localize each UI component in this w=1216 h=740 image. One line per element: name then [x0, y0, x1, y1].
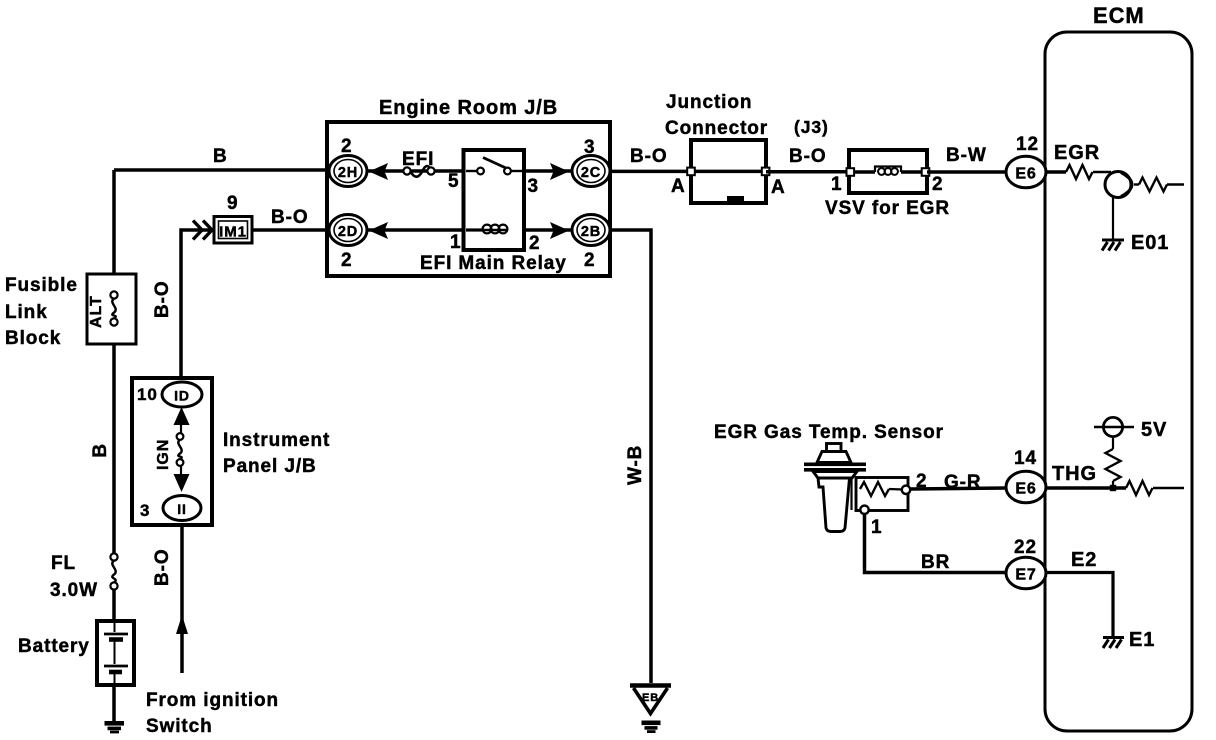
svg-text:2: 2: [341, 136, 352, 157]
svg-text:FL: FL: [51, 553, 76, 574]
resistor EGR: [1066, 165, 1093, 179]
ground bars below EB: [642, 721, 661, 726]
svg-text:Connector: Connector: [665, 118, 768, 139]
svg-text:THG: THG: [1052, 463, 1097, 485]
svg-text:2: 2: [932, 174, 943, 195]
wire FL fuse to battery: [112, 589, 116, 621]
connector 2D: [329, 215, 367, 246]
svg-text:1: 1: [450, 232, 461, 253]
svg-text:9: 9: [227, 193, 238, 214]
connector II oval: [163, 496, 201, 521]
terminal 2 node: [902, 486, 910, 494]
svg-text:5: 5: [448, 171, 459, 192]
svg-text:Junction: Junction: [666, 92, 752, 113]
svg-text:3: 3: [528, 176, 539, 197]
instrument panel JB box: [132, 378, 212, 525]
connector E6 pin12: [1006, 156, 1046, 188]
svg-text:EFI: EFI: [402, 149, 434, 170]
wire B vertical left upper: [112, 170, 116, 274]
J3 inner bar: [727, 196, 744, 202]
arrow up on ignition wire: [176, 615, 188, 634]
svg-text:E1: E1: [1129, 629, 1155, 651]
svg-text:1: 1: [831, 174, 842, 195]
svg-text:14: 14: [1014, 448, 1037, 469]
arrow down into II: [174, 474, 190, 492]
svg-text:From ignition: From ignition: [146, 690, 279, 711]
svg-text:3: 3: [140, 501, 150, 520]
wire resistor2 end: [1167, 183, 1184, 185]
svg-text:E01: E01: [1131, 232, 1169, 254]
wire battery to ground: [112, 685, 116, 721]
svg-text:Fusible: Fusible: [5, 275, 78, 296]
svg-text:2H: 2H: [338, 165, 358, 181]
svg-text:2C: 2C: [581, 165, 601, 181]
svg-text:Switch: Switch: [146, 716, 213, 737]
wire below instrument panel JB: [180, 525, 184, 673]
wire resistor to junction: [1112, 481, 1114, 488]
power 5V: [1103, 417, 1122, 436]
arrow left into 2H: [369, 163, 388, 180]
svg-text:G-R: G-R: [944, 472, 982, 493]
transistor: [1105, 172, 1131, 198]
svg-text:W-B: W-B: [625, 445, 646, 485]
svg-text:E6: E6: [1015, 481, 1036, 498]
ground triangle EB: [630, 683, 671, 687]
svg-text:VSV for EGR: VSV for EGR: [825, 198, 950, 219]
J3 terminal right: [762, 168, 770, 176]
fuse EFI: [411, 166, 431, 177]
svg-text:B: B: [213, 146, 228, 167]
sensor right edge double line: [850, 478, 852, 510]
connector 2H: [329, 156, 367, 187]
sensor flange: [804, 463, 866, 467]
svg-text:2: 2: [584, 250, 595, 271]
svg-text:10: 10: [137, 385, 158, 404]
svg-text:B-O: B-O: [152, 548, 173, 586]
wire VSV to E6: [927, 170, 1007, 174]
wire sensor pin1 to E7: [865, 514, 1008, 573]
wire THG: [1046, 486, 1126, 490]
VSV coil: [875, 167, 901, 173]
fusible link ALT fuse element: [112, 299, 115, 319]
fusible link block ALT box: [87, 274, 136, 344]
chevrons into IM1: [193, 221, 212, 240]
svg-text:22: 22: [1014, 537, 1037, 558]
wire 2B to WB drop: [610, 230, 651, 683]
wire 2H to relay: [366, 169, 463, 173]
svg-text:E6: E6: [1015, 166, 1036, 183]
fuse FL 3.0W: [112, 561, 115, 583]
svg-text:EGR: EGR: [1054, 142, 1100, 164]
wire E6 to resistor: [1046, 170, 1066, 174]
terminal 1 node: [860, 506, 868, 514]
connector IM1: [214, 217, 252, 244]
svg-text:B-O: B-O: [152, 280, 173, 318]
resistor THG pullup vertical: [1106, 449, 1121, 481]
wire transistor to E01 ground: [1112, 198, 1114, 241]
VSV terminal left: [847, 168, 855, 176]
svg-text:2: 2: [341, 250, 352, 271]
arrow right into 2C: [550, 163, 569, 180]
battery: [97, 621, 134, 685]
ground E01: [1102, 239, 1124, 242]
VSV for EGR box: [849, 150, 927, 193]
ECM box: [1045, 32, 1192, 731]
wire relay to 2C: [524, 169, 573, 173]
connector E7 pin22: [1006, 557, 1046, 589]
wire 2C to J3: [610, 170, 691, 174]
connector ID oval: [162, 382, 202, 407]
svg-text:12: 12: [1016, 134, 1039, 155]
svg-text:B-O: B-O: [271, 207, 309, 228]
wire 2D to relay: [366, 228, 482, 232]
arrow up into ID: [174, 407, 190, 425]
resistor THG output: [1126, 481, 1153, 495]
svg-text:ECM: ECM: [1093, 3, 1145, 28]
svg-text:ID: ID: [174, 388, 190, 404]
svg-text:Panel J/B: Panel J/B: [223, 456, 317, 477]
svg-text:EB: EB: [642, 692, 659, 704]
connector 2C: [572, 156, 610, 187]
J3 terminal left: [687, 168, 695, 176]
wire ALT to FL fuse: [112, 344, 116, 554]
svg-text:2: 2: [529, 233, 540, 254]
SECTION: left battery branch: [114, 170, 329, 721]
fuse IGN: [180, 425, 182, 433]
svg-text:EGR Gas Temp. Sensor: EGR Gas Temp. Sensor: [714, 422, 944, 443]
svg-text:Battery: Battery: [18, 636, 90, 657]
svg-text:B: B: [90, 443, 111, 458]
svg-text:B-O: B-O: [630, 146, 668, 167]
svg-text:II: II: [177, 501, 187, 517]
wire 5V to resistor: [1112, 437, 1114, 450]
svg-text:2B: 2B: [581, 224, 601, 240]
svg-text:Block: Block: [5, 328, 61, 349]
wire B horizontal top: [114, 168, 329, 172]
svg-text:E7: E7: [1015, 567, 1036, 584]
SECTION: B-O ignition branch: [181, 230, 330, 673]
engine room JB box: [327, 122, 610, 276]
wire through J3: [691, 170, 766, 174]
junction connector J3 box: [691, 140, 766, 203]
relay box EFI main relay: [464, 150, 525, 250]
svg-text:BR: BR: [921, 552, 950, 573]
arrow left into 2D: [369, 222, 388, 239]
svg-text:5V: 5V: [1141, 419, 1167, 441]
node THG junction: [1110, 485, 1116, 491]
EGR gas temp sensor body: [813, 444, 908, 532]
wire resistor to transistor: [1093, 171, 1111, 173]
svg-text:Link: Link: [5, 302, 48, 323]
relay coil: [466, 228, 482, 231]
thermistor element: [860, 482, 889, 496]
svg-text:A: A: [671, 176, 686, 197]
ground E1: [1103, 636, 1124, 639]
ground battery: [105, 721, 125, 726]
connector 2B: [572, 215, 610, 246]
svg-text:A: A: [771, 177, 786, 198]
relay switch: [466, 170, 477, 172]
wire B-O turn to IM1: [181, 230, 214, 378]
wire IM1 to 2D: [252, 228, 330, 232]
wire sensor pin2 to E6: [910, 488, 1007, 489]
VSV terminal right: [922, 168, 930, 176]
svg-text:IGN: IGN: [155, 439, 172, 470]
wire through VSV: [850, 170, 875, 174]
svg-text:B-O: B-O: [789, 146, 827, 167]
svg-text:Instrument: Instrument: [223, 430, 330, 451]
resistor EGR output: [1139, 178, 1167, 192]
svg-text:Engine Room J/B: Engine Room J/B: [379, 97, 558, 119]
wire relay coil to 2B: [508, 228, 573, 232]
connector E6 pin14: [1006, 471, 1046, 503]
svg-text:1: 1: [871, 517, 882, 538]
wire E2 to E1 ground: [1046, 573, 1113, 638]
svg-text:E2: E2: [1071, 549, 1097, 571]
svg-text:EFI Main Relay: EFI Main Relay: [420, 253, 567, 274]
svg-text:3.0W: 3.0W: [50, 580, 98, 601]
arrow right into 2B: [550, 222, 569, 239]
svg-text:B-W: B-W: [946, 145, 987, 166]
svg-text:ALT: ALT: [88, 295, 105, 328]
wire THG resistor end: [1153, 487, 1184, 489]
wire J3 to VSV: [766, 170, 852, 174]
svg-text:2D: 2D: [338, 224, 358, 240]
svg-text:(J3): (J3): [794, 117, 829, 137]
svg-text:IM1: IM1: [219, 224, 247, 241]
svg-text:3: 3: [584, 137, 595, 158]
wire transistor to resistor2: [1134, 183, 1139, 185]
